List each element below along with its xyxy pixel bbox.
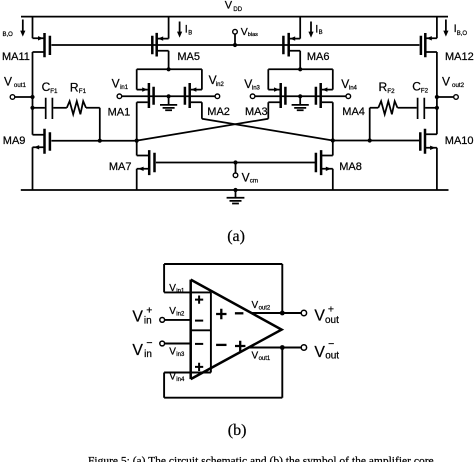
svg-text:MA9: MA9	[3, 135, 26, 147]
svg-text:B: B	[319, 30, 323, 36]
svg-text:MA4: MA4	[342, 106, 365, 118]
svg-text:MA6: MA6	[307, 51, 330, 63]
svg-text:MA11: MA11	[2, 51, 30, 63]
svg-text:in2: in2	[216, 82, 225, 88]
svg-text:V: V	[225, 0, 233, 11]
svg-text:MA5: MA5	[177, 51, 200, 63]
svg-text:MA10: MA10	[445, 135, 474, 147]
svg-text:out1: out1	[259, 356, 271, 362]
svg-text:out1: out1	[14, 82, 27, 89]
svg-text:MA12: MA12	[445, 51, 474, 63]
svg-text:−: −	[146, 337, 152, 349]
svg-text:(a): (a)	[227, 228, 245, 245]
svg-text:out: out	[325, 315, 339, 326]
svg-text:in1: in1	[120, 85, 129, 91]
svg-text:V: V	[132, 342, 143, 359]
svg-text:B: B	[188, 30, 192, 36]
svg-text:in4: in4	[176, 377, 185, 383]
svg-text:cm: cm	[250, 178, 258, 185]
svg-text:V: V	[4, 74, 12, 88]
svg-text:B,O: B,O	[457, 31, 468, 37]
svg-text:MA1: MA1	[108, 107, 131, 119]
svg-text:+: +	[328, 303, 334, 315]
svg-text:MA2: MA2	[207, 106, 230, 118]
svg-text:in3: in3	[252, 86, 261, 92]
svg-text:out2: out2	[452, 82, 465, 89]
svg-text:V: V	[314, 308, 325, 325]
svg-text:F2: F2	[387, 88, 395, 95]
svg-text:in: in	[144, 349, 152, 360]
svg-text:bias: bias	[248, 32, 258, 38]
svg-text:V: V	[169, 371, 176, 382]
svg-text:MA8: MA8	[339, 161, 362, 173]
svg-text:F1: F1	[50, 88, 58, 95]
svg-text:Figure 5: (a) The circuit sche: Figure 5: (a) The circuit schematic and …	[88, 456, 437, 462]
svg-text:V: V	[132, 308, 143, 325]
svg-text:V: V	[442, 74, 450, 88]
svg-text:out: out	[325, 351, 339, 362]
svg-text:in1: in1	[176, 288, 185, 294]
svg-text:−: −	[328, 338, 334, 350]
svg-text:V: V	[169, 306, 176, 317]
svg-text:in: in	[144, 316, 152, 327]
svg-text:V: V	[252, 350, 259, 361]
svg-text:B,O: B,O	[3, 32, 14, 38]
svg-text:V: V	[169, 283, 176, 294]
svg-text:out2: out2	[259, 305, 271, 311]
svg-text:in4: in4	[349, 86, 358, 92]
svg-text:V: V	[242, 170, 250, 184]
svg-text:F2: F2	[421, 87, 429, 94]
svg-text:V: V	[169, 346, 176, 357]
svg-text:MA7: MA7	[109, 161, 132, 173]
svg-text:(b): (b)	[228, 422, 247, 439]
svg-text:DD: DD	[233, 7, 242, 13]
svg-text:V: V	[314, 344, 325, 361]
svg-text:F1: F1	[79, 88, 87, 95]
svg-text:V: V	[252, 300, 259, 311]
svg-text:R: R	[70, 81, 79, 95]
svg-text:R: R	[379, 80, 388, 94]
svg-text:V: V	[112, 76, 120, 90]
svg-text:in3: in3	[176, 352, 185, 358]
svg-text:in2: in2	[176, 312, 185, 318]
svg-text:MA3: MA3	[245, 106, 268, 118]
svg-text:V: V	[241, 26, 248, 38]
